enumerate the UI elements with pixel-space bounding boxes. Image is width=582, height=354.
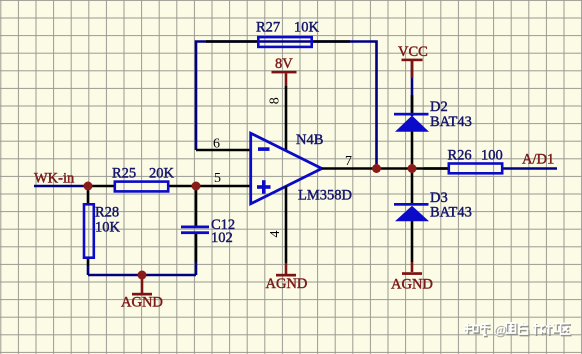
diode D2 labels: [430, 99, 472, 130]
resistor R28 labels: [95, 205, 121, 236]
svg-text:R28: R28: [95, 205, 119, 221]
svg-text:10K: 10K: [95, 220, 121, 236]
svg-text:10K: 10K: [294, 20, 320, 36]
svg-text:AGND: AGND: [266, 276, 308, 292]
ground AGND middle: [266, 263, 308, 292]
pin number 6: [213, 137, 220, 152]
resistor R27 pins: [206, 40, 350, 43]
op-amp U1 pin 6 lead: [196, 149, 251, 152]
resistor R25 labels: [112, 166, 175, 182]
svg-text:A/D1: A/D1: [522, 152, 554, 168]
resistor R26: [449, 164, 502, 174]
power port VCC: [398, 44, 428, 78]
ground AGND right: [391, 262, 433, 292]
op-amp U1 designator N4B: [296, 132, 323, 148]
svg-text:BAT43: BAT43: [430, 205, 472, 221]
op-amp U1 pin 7 lead: [322, 167, 377, 170]
svg-text:20K: 20K: [149, 166, 175, 182]
op-amp U1 pin 4 lead: [285, 186, 288, 263]
svg-text:8: 8: [268, 97, 283, 104]
svg-text:D2: D2: [430, 99, 448, 115]
node junction diodes: [408, 164, 417, 173]
pin number 8: [268, 97, 283, 104]
op-amp U1 LM358D: [251, 133, 322, 204]
svg-text:102: 102: [211, 230, 233, 246]
op-amp U1 part LM358D: [298, 188, 352, 204]
svg-text:R27: R27: [256, 20, 280, 36]
wire bottom R28 to C12: [88, 274, 196, 277]
capacitor C12 pins: [195, 186, 198, 275]
svg-text:5: 5: [214, 171, 221, 186]
capacitor C12: [181, 226, 209, 235]
capacitor C12 labels: [211, 217, 235, 246]
diode D2 BAT43: [394, 113, 429, 132]
node junction bottom (AGND): [138, 271, 147, 280]
resistor R27: [258, 37, 311, 47]
diode D3 BAT43: [394, 203, 429, 221]
net label A/D1: [522, 152, 554, 168]
svg-text:BAT43: BAT43: [430, 114, 472, 130]
pin number 5: [214, 171, 221, 186]
svg-text:7: 7: [345, 154, 352, 169]
diode D3 labels: [430, 190, 472, 221]
wire WK-in input: [34, 185, 92, 188]
svg-text:WK-in: WK-in: [34, 171, 75, 187]
resistor R25: [115, 182, 168, 192]
resistor R26 pins: [424, 167, 448, 170]
pin number 7: [345, 154, 352, 169]
svg-text:4: 4: [268, 231, 283, 238]
svg-text:N4B: N4B: [296, 132, 323, 148]
net label WK-in: [34, 171, 75, 187]
wire VCC to D2: [411, 61, 414, 113]
diode D2 pins: [411, 95, 414, 169]
power port 8V: [272, 56, 297, 86]
node junction output (pin7 / feedback): [372, 164, 381, 173]
resistor R26 labels: [448, 148, 503, 164]
pin number 4: [268, 231, 283, 238]
svg-text:VCC: VCC: [398, 44, 428, 60]
svg-text:R26: R26: [448, 148, 472, 164]
diode D3 pins: [411, 169, 414, 263]
resistor R25 pins: [88, 185, 196, 188]
wire R26 to A/D1: [503, 167, 557, 170]
op-amp U1 pin 8 lead: [285, 86, 288, 151]
svg-text:100: 100: [481, 148, 503, 164]
svg-text:@: @: [494, 321, 506, 336]
svg-text:AGND: AGND: [121, 294, 163, 310]
node junction B (R25 / pin5 / C12): [192, 182, 201, 191]
resistor R28: [84, 204, 94, 257]
op-amp U1 pin 5 lead: [196, 185, 251, 188]
svg-text:LM358D: LM358D: [298, 188, 352, 204]
wire feedback loop: [196, 42, 377, 169]
resistor R27 labels: [256, 20, 320, 36]
resistor R28 pins: [87, 186, 90, 275]
svg-text:AGND: AGND: [391, 276, 433, 292]
svg-text:R25: R25: [112, 166, 136, 182]
ground AGND left: [121, 275, 163, 310]
wire output node to R26: [377, 167, 448, 170]
svg-text:6: 6: [213, 137, 220, 152]
node junction A (WK-in / R25 / R28): [84, 182, 93, 191]
svg-text:8V: 8V: [275, 56, 293, 72]
